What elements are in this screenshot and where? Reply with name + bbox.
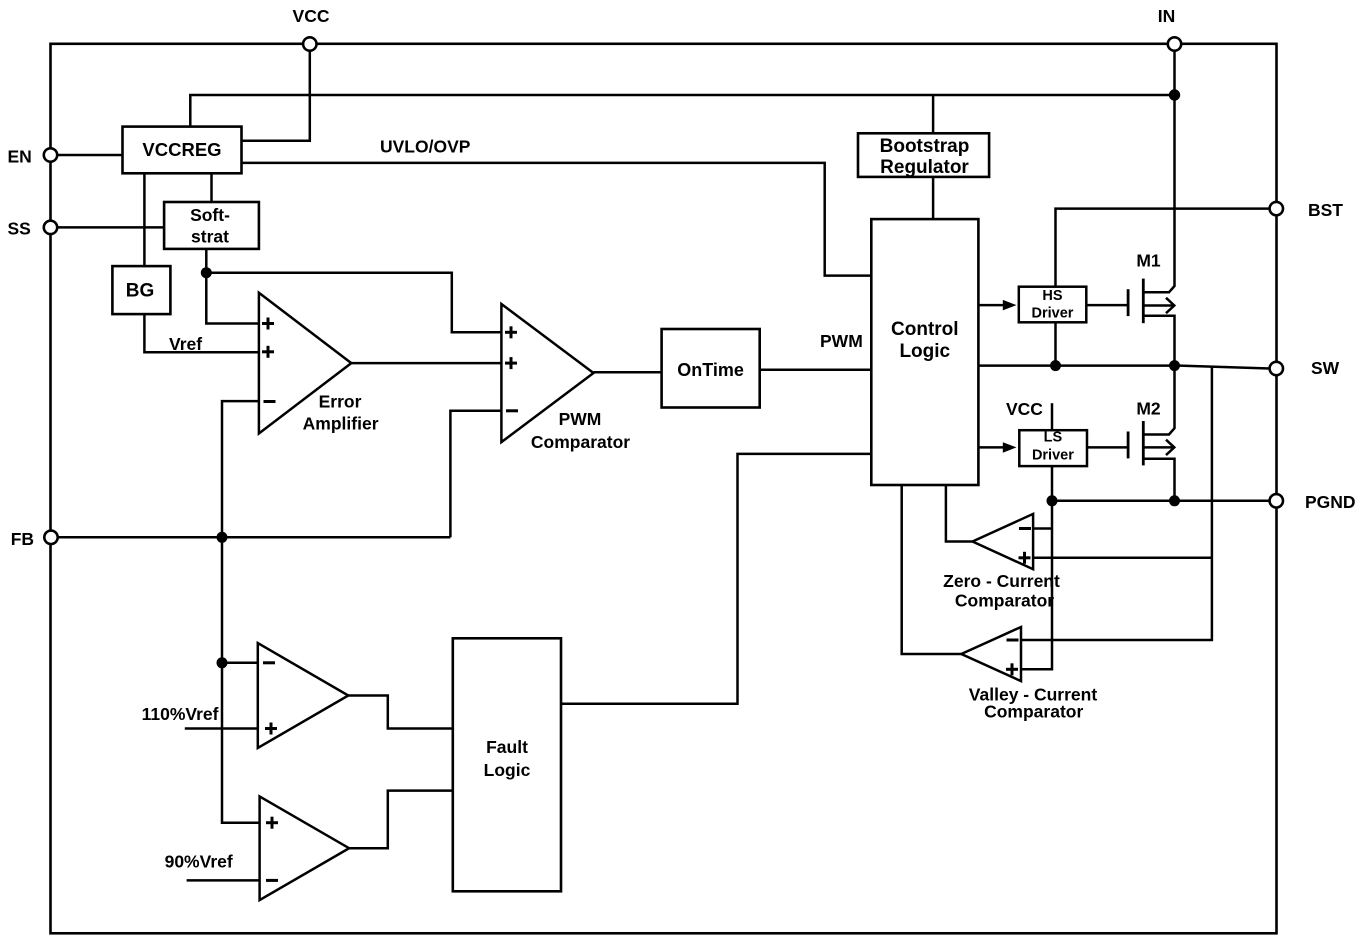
- svg-text:UVLO/OVP: UVLO/OVP: [380, 137, 471, 157]
- block OnTime: [662, 329, 760, 408]
- svg-text:Comparator: Comparator: [531, 432, 630, 452]
- transistor M2: [1128, 366, 1174, 501]
- svg-text:Driver: Driver: [1032, 448, 1074, 464]
- wire 110%Vref input: [185, 727, 258, 730]
- wire 110% comparator output to Fault Logic: [348, 696, 453, 729]
- node FB junction: [217, 532, 228, 543]
- pin SS: [8, 219, 58, 239]
- wire PGND junction down to comparators: [1021, 501, 1052, 670]
- arrowhead HS: [1003, 300, 1017, 311]
- wire valley comparator output to Control Logic: [902, 485, 962, 654]
- svg-text:IN: IN: [1158, 6, 1176, 26]
- svg-text:Soft-: Soft-: [190, 205, 230, 225]
- op-amp U1 error amplifier: [259, 293, 379, 434]
- pin VCC: [293, 6, 330, 51]
- pin BST: [1270, 200, 1344, 220]
- wire node to 110% comparator - input: [222, 662, 258, 665]
- comparator 90%Vref: [260, 796, 350, 900]
- wire node to PWM comparator first + input: [206, 273, 501, 333]
- node LS driver at PGND: [1047, 495, 1058, 506]
- svg-text:PWM: PWM: [559, 409, 602, 429]
- comparator valley current: [961, 627, 1097, 722]
- wire Soft-strat down to node: [205, 249, 208, 273]
- svg-text:BG: BG: [126, 281, 155, 302]
- wire zero current comparator output to Control Logic: [946, 485, 973, 542]
- svg-text:OnTime: OnTime: [677, 360, 744, 380]
- block VCCREG: [123, 127, 242, 174]
- wire FB to error amp - input: [222, 401, 259, 537]
- wire OnTime output to Control Logic: [760, 368, 872, 371]
- wire SW branch down to valley comparator - input: [1021, 366, 1212, 640]
- block Bootstrap Regulator: [858, 133, 989, 178]
- svg-text:Vref: Vref: [169, 334, 202, 354]
- arrowhead LS: [1003, 442, 1017, 453]
- wire rail down to Bootstrap Regulator: [932, 95, 935, 133]
- wire HS Driver to M1 gate: [1086, 304, 1128, 307]
- wire BST pin rail to HS driver: [1056, 209, 1270, 288]
- block LS Driver: [1019, 430, 1087, 467]
- comparator 110%Vref: [258, 643, 349, 748]
- svg-text:FB: FB: [11, 529, 34, 549]
- pin EN: [8, 147, 58, 167]
- svg-text:BST: BST: [1308, 200, 1343, 220]
- wire PWM comparator output to OnTime: [594, 371, 662, 374]
- wire VCC stub to LS driver: [1051, 403, 1054, 430]
- wire SS pin to Soft-strat: [57, 226, 164, 229]
- svg-text:Comparator: Comparator: [984, 702, 1083, 722]
- wire 90% comparator output to Fault Logic: [349, 791, 453, 849]
- block Soft-strat: [164, 202, 259, 249]
- wire error amp output to PWM comparator second + input: [351, 362, 501, 365]
- node soft-start output: [201, 267, 212, 278]
- svg-text:LS: LS: [1044, 430, 1063, 446]
- wire HS Driver down to SW rail: [1054, 323, 1057, 366]
- svg-text:SS: SS: [8, 219, 31, 239]
- wire Bootstrap Regulator to Control Logic: [932, 177, 935, 219]
- svg-text:EN: EN: [8, 147, 32, 167]
- block BG: [112, 266, 170, 314]
- node junction at IN rail: [1169, 89, 1180, 100]
- transistor M1: [1128, 279, 1174, 366]
- wire Fault Logic output to Control Logic: [561, 454, 871, 704]
- svg-text:Regulator: Regulator: [880, 157, 969, 178]
- svg-text:M1: M1: [1136, 251, 1161, 271]
- svg-text:M2: M2: [1136, 399, 1161, 419]
- pin SW: [1270, 358, 1340, 378]
- block Fault Logic: [453, 638, 561, 891]
- pin PGND: [1270, 492, 1356, 512]
- wire LS Driver to M2 gate: [1087, 446, 1128, 449]
- node HS driver at SW: [1050, 360, 1061, 371]
- wire FB to PWM comparator - input: [450, 411, 501, 538]
- block Control Logic: [871, 219, 978, 485]
- wire VCC pin to VCCREG right side: [242, 51, 310, 141]
- svg-text:110%Vref: 110%Vref: [142, 704, 219, 724]
- block HS Driver: [1019, 287, 1087, 323]
- node M1 source at SW: [1169, 360, 1180, 371]
- node FB lower junction: [217, 657, 228, 668]
- wire node to error amp first + input: [206, 273, 259, 324]
- wire VCCREG to Soft-strat: [210, 173, 213, 202]
- svg-text:Driver: Driver: [1032, 306, 1074, 322]
- comparator PWM: [501, 304, 630, 452]
- wire EN pin to VCCREG: [57, 154, 123, 157]
- wire PGND rail: [1052, 500, 1270, 503]
- wire zero current comparator + input to SW branch: [1033, 557, 1212, 560]
- svg-text:Comparator: Comparator: [955, 591, 1054, 611]
- svg-text:Fault: Fault: [486, 737, 528, 757]
- wire LS Driver down to PGND rail: [1051, 466, 1054, 501]
- wire Control Logic to LS Driver with arrow: [978, 446, 1004, 449]
- comparator zero current: [943, 514, 1060, 611]
- pin FB: [11, 529, 58, 549]
- wire IN pin down to M1 drain: [1143, 51, 1174, 293]
- svg-text:PGND: PGND: [1305, 492, 1356, 512]
- svg-text:Logic: Logic: [484, 760, 531, 780]
- node M2 source at PGND: [1169, 495, 1180, 506]
- wire SW rail: [978, 366, 1269, 369]
- wire zero current comparator - input: [1033, 527, 1052, 530]
- wire BG to Vref to error amp + input: [144, 314, 259, 352]
- pin IN: [1158, 6, 1181, 51]
- svg-text:Bootstrap: Bootstrap: [880, 136, 970, 157]
- svg-text:HS: HS: [1042, 288, 1062, 304]
- svg-text:Logic: Logic: [899, 341, 950, 362]
- svg-text:VCCREG: VCCREG: [142, 139, 221, 160]
- wire FB down to comparators: [222, 537, 260, 822]
- wire UVLO/OVP from VCCREG to Control Logic: [242, 163, 872, 276]
- svg-text:90%Vref: 90%Vref: [165, 852, 233, 872]
- svg-text:strat: strat: [191, 227, 229, 247]
- wire VCCREG down to BG: [143, 173, 146, 266]
- svg-text:SW: SW: [1311, 358, 1340, 378]
- svg-text:Control: Control: [891, 319, 959, 340]
- svg-text:VCC: VCC: [1006, 399, 1043, 419]
- svg-text:Zero - Current: Zero - Current: [943, 571, 1060, 591]
- wire Control Logic to HS Driver with arrow: [978, 304, 1004, 307]
- wire FB pin rail: [58, 536, 450, 539]
- svg-text:Error: Error: [319, 392, 362, 412]
- svg-text:Amplifier: Amplifier: [303, 414, 379, 434]
- wire top rail y=95 to IN node: [190, 95, 1174, 127]
- svg-text:PWM: PWM: [820, 331, 863, 351]
- svg-text:VCC: VCC: [293, 6, 330, 26]
- wire 90%Vref input: [187, 879, 260, 882]
